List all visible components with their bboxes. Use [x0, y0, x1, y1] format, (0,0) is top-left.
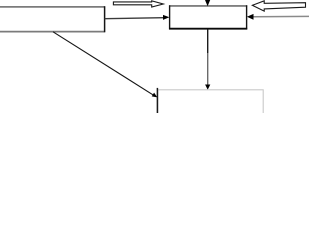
- block arrow A1 (hollow right arrow, top middle): [113, 1, 163, 7]
- node N1: dark left edge of B3: [156, 88, 158, 114]
- block arrow A2 (hollow left arrow, top right): [252, 1, 305, 11]
- wire W3: connector from right edge into B2 right side: [247, 14, 310, 20]
- wire W2: down arrowhead entering B2 top (shaft above canvas): [205, 0, 210, 6]
- box B3 (bottom, light gray border, clipped at bottom): [158, 90, 263, 116]
- wire W1: connector B1 to B2 with arrowhead: [105, 15, 170, 20]
- box B2 (top middle-right): [169, 5, 247, 29]
- wire W5: diagonal connector from B1 bottom to B3 left edge with arrowhead: [53, 32, 157, 98]
- wire W4: vertical connector B2 bottom to B3 with arrowhead: [205, 29, 210, 89]
- box B1 (top-left, clipped at left edge): [0, 6, 105, 32]
